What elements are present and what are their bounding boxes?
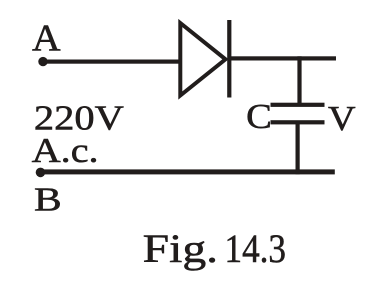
terminal dot B [36, 168, 46, 178]
capacitor C bottom plate [271, 120, 325, 124]
wire: bottom rail from B terminal to right [38, 169, 335, 174]
wire: A terminal to diode anode [41, 60, 182, 64]
svg-text:A.c.: A.c. [32, 131, 99, 170]
capacitor C top plate [271, 103, 325, 107]
wire: capacitor bottom plate down to bottom rail [296, 122, 300, 174]
wire: diode cathode to top-right [229, 56, 336, 60]
svg-text:A: A [32, 17, 61, 59]
svg-text:C: C [246, 97, 272, 136]
wire: junction down to capacitor top plate [297, 56, 301, 105]
svg-text:V: V [328, 99, 356, 138]
svg-text:14.3: 14.3 [225, 226, 287, 271]
svg-text:Fig.: Fig. [143, 226, 219, 271]
diode D1 cathode bar [227, 20, 231, 98]
svg-text:B: B [34, 182, 62, 219]
terminal dot A [38, 57, 47, 66]
diode D1 triangle (anode) [180, 23, 225, 96]
